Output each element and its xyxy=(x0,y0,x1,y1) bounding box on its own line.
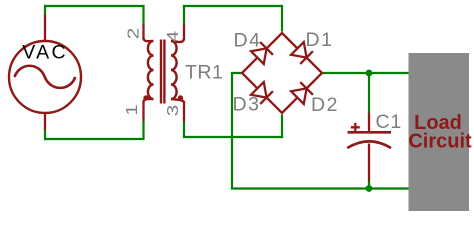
bottom lead (red part) xyxy=(368,144,370,182)
wire bridge bottom stub xyxy=(281,115,283,139)
svg-text:D4: D4 xyxy=(234,30,262,52)
diode D2 xyxy=(291,82,313,104)
wire top-left horizontal (VAC top to TR1 pin2) xyxy=(44,5,145,7)
polarity dot secondary xyxy=(178,95,183,100)
wire bottom-left horizontal (VAC bottom to TR1 pin1) xyxy=(44,138,145,140)
svg-text:D1: D1 xyxy=(306,29,334,51)
label D2 xyxy=(311,94,339,116)
svg-text:TR1: TR1 xyxy=(185,61,223,83)
wire left vertical bottom (VAC to bottom rail) xyxy=(44,130,46,141)
load circuit block xyxy=(408,53,472,211)
wire TR1 pin4 stub xyxy=(183,5,185,25)
wire left vertical top (to VAC) xyxy=(44,5,46,15)
diode D3 xyxy=(251,82,273,104)
top lead (red part) xyxy=(368,113,370,132)
wire TR1 pin2 stub xyxy=(142,5,144,25)
junction dot top (C1 / load node) xyxy=(366,70,373,77)
wire C1 bottom lead (green part) xyxy=(368,180,370,189)
core bars xyxy=(160,40,162,104)
wire bottom rail (negative) to load xyxy=(231,187,410,189)
label D1 xyxy=(306,29,334,51)
pin 4 lead xyxy=(183,25,185,40)
wire bridge left vertex to negative rail xyxy=(232,73,244,189)
label D3 xyxy=(233,93,261,115)
pin 3 lead xyxy=(183,101,185,122)
wire top rail (positive, bridge right vertex to load) xyxy=(321,72,410,74)
bridge diamond wires xyxy=(242,33,322,113)
plus sign xyxy=(351,123,360,132)
wire TR1 pin3 stub xyxy=(183,121,185,138)
svg-text:Circuit: Circuit xyxy=(408,131,472,153)
label D4 xyxy=(234,30,262,52)
secondary winding xyxy=(171,38,184,103)
pin 2 lead xyxy=(142,24,144,39)
top plate xyxy=(348,131,392,134)
capacitor C1 xyxy=(347,111,402,181)
polarity dot primary xyxy=(143,95,148,100)
diode D4 xyxy=(251,42,273,64)
curved bottom plate xyxy=(347,141,391,148)
AC source VAC xyxy=(9,15,81,130)
svg-text:VAC: VAC xyxy=(22,42,68,64)
primary winding xyxy=(144,38,154,102)
svg-text:1: 1 xyxy=(124,104,141,116)
wire top-middle horizontal (TR1 pin4 to bridge top) xyxy=(183,5,283,7)
wire TR1 pin1 stub xyxy=(142,121,144,141)
svg-text:2: 2 xyxy=(126,28,143,40)
svg-text:3: 3 xyxy=(165,105,182,117)
wire bridge top stub xyxy=(281,5,283,32)
svg-text:4: 4 xyxy=(165,31,182,43)
transformer TR1 xyxy=(124,24,223,122)
wire bottom-middle horizontal (TR1 pin3 to bridge bottom) xyxy=(183,136,283,138)
junction dot bottom (C1 / load node) xyxy=(366,185,373,192)
svg-text:D3: D3 xyxy=(233,93,261,115)
svg-text:C1: C1 xyxy=(376,111,403,133)
pin 1 lead xyxy=(142,101,144,121)
wire C1 top lead (green part) xyxy=(368,73,370,114)
svg-text:D2: D2 xyxy=(311,94,339,116)
diode D1 xyxy=(291,42,313,64)
